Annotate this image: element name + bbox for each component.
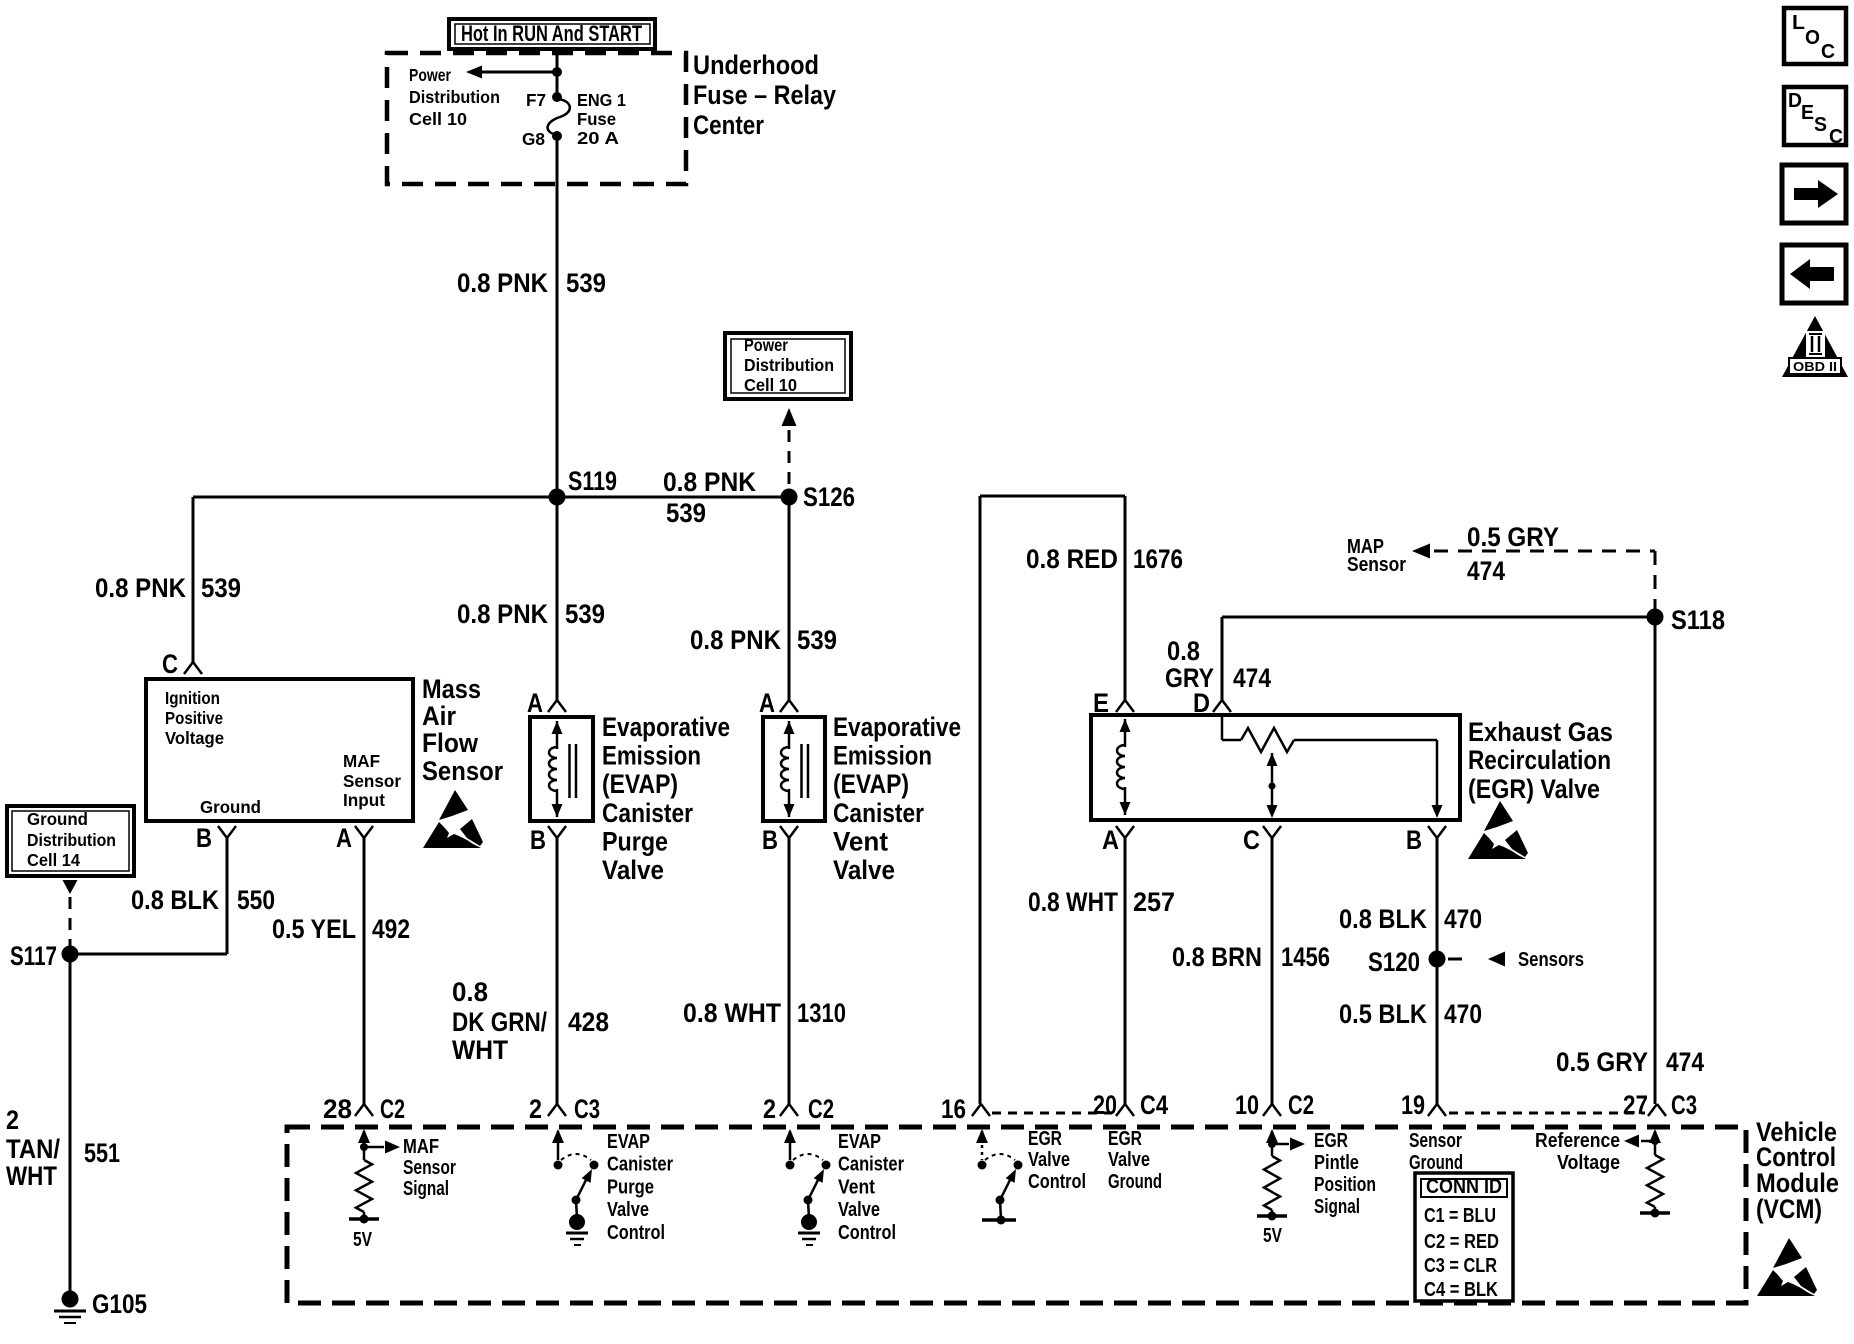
svg-text:C1 = BLU: C1 = BLU [1424,1205,1496,1227]
svg-text:Mass: Mass [422,674,481,704]
svg-text:Evaporative: Evaporative [602,712,730,742]
svg-text:470: 470 [1444,904,1482,934]
pin B of purge valve [530,825,566,855]
svg-text:539: 539 [201,573,241,603]
svg-text:Valve: Valve [1028,1149,1070,1171]
label: Vehicle Control Module (VCM) [1756,1117,1839,1224]
pin C of MAF sensor [162,649,202,679]
dashed connector segment pin16-pin20 [992,1112,1112,1115]
label: 0.8 GRY 474 [1165,636,1271,693]
svg-text:Purge: Purge [607,1176,654,1198]
VCM internal: reference voltage pull-up [1624,1129,1670,1218]
svg-text:(EGR) Valve: (EGR) Valve [1468,774,1600,804]
label: Mass Air Flow Sensor [422,674,503,786]
svg-text:EGR: EGR [1314,1130,1348,1152]
svg-text:Air: Air [422,701,456,731]
VCM internal: MAF sensor signal pull-up to 5V [349,1129,400,1251]
VCM pin 20 C4 [1093,1090,1168,1120]
svg-text:S: S [1814,114,1827,136]
svg-text:Flow: Flow [422,728,479,758]
wire: feed from Hot box to fuse F7 [556,48,559,97]
label: Sensor Ground [1409,1130,1463,1174]
label: 0.8 BRN 1456 [1172,942,1330,972]
svg-text:Emission: Emission [833,741,932,771]
VCM internal: EGR valve control driver switch [976,1129,1023,1225]
icon: LOC [1784,8,1846,64]
svg-text:EVAP: EVAP [838,1131,881,1153]
svg-text:EGR: EGR [1028,1128,1062,1150]
svg-text:Cell 14: Cell 14 [27,850,80,870]
svg-text:2: 2 [529,1094,542,1124]
pin A of purge valve [527,688,566,718]
svg-text:Power: Power [744,335,788,355]
svg-text:Signal: Signal [403,1178,449,1200]
pin A of vent valve [759,688,798,718]
svg-text:B: B [762,825,778,855]
svg-text:EGR: EGR [1108,1128,1142,1150]
svg-text:Sensor: Sensor [1347,554,1406,576]
power distribution cell 10 box (middle) [725,333,851,399]
svg-text:S119: S119 [568,466,617,496]
label: EGR Valve Control [1028,1128,1086,1193]
splice S120 with dashed branch to sensors [1368,947,1584,977]
svg-text:0.8: 0.8 [452,977,488,1007]
VCM pin 28 C2 [323,1094,405,1124]
svg-text:Canister: Canister [607,1154,673,1176]
svg-text:1310: 1310 [797,998,846,1028]
wire: S117 down to G105 [69,954,72,1296]
svg-text:G8: G8 [522,129,545,149]
svg-text:Vent: Vent [838,1176,875,1198]
svg-text:OBD II: OBD II [1793,359,1837,374]
svg-text:27: 27 [1623,1090,1648,1120]
fuse F7/G8 ENG 1 Fuse 20 A [522,90,626,149]
label: 0.8 WHT 1310 [683,998,846,1028]
icon: DESC [1784,87,1846,148]
svg-text:MAF: MAF [403,1136,439,1158]
svg-text:5V: 5V [353,1229,373,1251]
wire: EGR B down through S120 to VCM pin 19 [1436,838,1439,1104]
svg-text:474: 474 [1467,556,1505,586]
svg-text:Recirculation: Recirculation [1468,745,1611,775]
svg-text:MAF: MAF [343,751,380,771]
svg-text:C3: C3 [1671,1090,1697,1120]
svg-text:B: B [196,823,212,853]
svg-text:Sensors: Sensors [1518,949,1584,971]
svg-text:Fuse – Relay: Fuse – Relay [693,80,836,110]
svg-text:Voltage: Voltage [165,728,224,748]
pin A of EGR valve [1102,825,1134,855]
svg-text:10: 10 [1235,1090,1259,1120]
label: 0.5 BLK 470 [1339,999,1482,1029]
svg-text:C: C [1821,41,1835,63]
ESD symbol (EGR) [1468,801,1528,859]
svg-text:Control: Control [607,1222,665,1244]
svg-text:0.5 GRY: 0.5 GRY [1467,522,1559,552]
label: 0.8 BLK 550 [131,885,275,915]
dashed connector segment pin19-pin27 [1449,1112,1645,1115]
label: Exhaust Gas Recirculation (EGR) Valve [1468,717,1613,804]
svg-text:28: 28 [323,1094,352,1124]
svg-text:C2 = RED: C2 = RED [1424,1231,1499,1253]
pin D of EGR valve [1193,688,1231,718]
svg-text:Sensor: Sensor [403,1157,456,1179]
ESD symbol (MAF) [423,790,483,848]
VCM pin 27 C3 [1623,1090,1697,1120]
svg-text:Signal: Signal [1314,1196,1360,1218]
svg-text:Vent: Vent [833,826,888,856]
svg-text:C4: C4 [1140,1090,1168,1120]
arrow to power distribution [466,66,562,79]
svg-text:Canister: Canister [602,798,693,828]
svg-text:0.8 PNK: 0.8 PNK [663,467,756,497]
svg-text:428: 428 [568,1007,609,1037]
label: 0.8 PNK 539 (purge feed) [457,599,605,629]
svg-text:Center: Center [693,110,764,140]
svg-text:C2: C2 [1288,1090,1314,1120]
svg-text:0.8 RED: 0.8 RED [1026,544,1118,574]
svg-text:2: 2 [6,1105,19,1135]
wire: S118 left and down to EGR pin D [1222,617,1655,700]
svg-text:F7: F7 [526,90,546,110]
svg-text:Input: Input [343,790,385,810]
svg-text:Control: Control [838,1222,896,1244]
svg-text:Distribution: Distribution [409,87,500,107]
svg-text:Canister: Canister [838,1154,904,1176]
splice S118 [1647,605,1726,635]
svg-text:A: A [527,688,543,718]
wire: left branch down to MAF pin C [192,497,195,662]
splice S119 [549,466,618,506]
svg-text:S117: S117 [10,941,57,971]
svg-text:TAN/: TAN/ [6,1134,60,1164]
pin A of MAF sensor [336,823,373,853]
label: 0.5 GRY 474 (MAP) [1467,522,1559,586]
svg-text:A: A [336,823,352,853]
label: EVAP Canister Purge Valve Control [607,1131,673,1244]
svg-text:S120: S120 [1368,947,1420,977]
label: Evaporative Emission (EVAP) Canister Vent Valve [833,712,961,885]
label: 0.8 BLK 470 [1339,904,1482,934]
svg-text:Fuse: Fuse [577,109,616,129]
vehicle control module dashed box [287,1127,1746,1303]
svg-text:Valve: Valve [607,1199,649,1221]
svg-text:Hot In RUN And START: Hot In RUN And START [461,21,642,46]
svg-text:DK GRN/: DK GRN/ [452,1007,547,1037]
svg-text:D: D [1788,90,1802,112]
label: 0.8 PNK 539 (vent feed) [690,625,837,655]
svg-text:0.8 WHT: 0.8 WHT [683,998,781,1028]
svg-text:0.5 GRY: 0.5 GRY [1556,1047,1648,1077]
CONN ID table [1415,1173,1513,1301]
wire: vent B down to VCM pin 2 C2 [788,838,791,1104]
dashed wire: S118 to MAP sensor [1412,544,1655,611]
VCM internal: EVAP purge driver switch to ground [552,1129,599,1245]
svg-text:CONN ID: CONN ID [1426,1176,1502,1198]
svg-text:Sensor: Sensor [343,771,401,791]
svg-text:A: A [1102,825,1119,855]
svg-text:Sensor: Sensor [1409,1130,1462,1152]
splice S126 [781,482,856,512]
svg-text:S118: S118 [1671,605,1725,635]
icon: OBD II triangle [1782,316,1848,377]
EVAP canister vent valve [763,717,825,821]
svg-text:Cell 10: Cell 10 [744,375,797,395]
svg-text:Exhaust Gas: Exhaust Gas [1468,717,1613,747]
svg-text:Distribution: Distribution [27,830,116,850]
label: 0.8 PNK 539 (left branch) [95,573,241,603]
icon: arrow left [1782,245,1846,303]
wire: fuse G8 down to splice S119 [556,136,559,497]
svg-text:C3: C3 [574,1094,600,1124]
svg-text:Valve: Valve [1108,1149,1150,1171]
svg-text:16: 16 [941,1094,966,1124]
svg-text:E: E [1801,102,1814,124]
VCM pin 2 C3 [529,1094,600,1124]
svg-text:Underhood: Underhood [693,50,819,80]
pin B of vent valve [762,825,798,855]
label: MAP Sensor [1347,536,1406,576]
icon: arrow right [1782,165,1846,223]
svg-text:Valve: Valve [838,1199,880,1221]
label: EGR Pintle Position Signal [1314,1130,1376,1218]
svg-text:A: A [759,688,775,718]
label: 0.8 DK GRN/WHT 428 [452,977,609,1065]
svg-text:Position: Position [1314,1174,1376,1196]
svg-text:257: 257 [1133,887,1175,917]
svg-text:L: L [1792,12,1805,34]
svg-text:0.8 PNK: 0.8 PNK [95,573,186,603]
label: 2 TAN/WHT 551 [6,1105,120,1191]
svg-text:D: D [1193,688,1210,718]
svg-text:EVAP: EVAP [607,1131,650,1153]
svg-text:539: 539 [797,625,837,655]
svg-text:20 A: 20 A [577,128,619,148]
wire: VCM pin 16 up and over to EGR pin E [980,496,1125,1104]
svg-text:492: 492 [372,914,410,944]
underhood fuse-relay center dashed box [387,53,686,184]
svg-text:0.8: 0.8 [1167,636,1200,666]
svg-text:S126: S126 [803,482,855,512]
svg-text:Positive: Positive [165,708,223,728]
svg-text:Ignition: Ignition [165,688,220,708]
svg-text:1676: 1676 [1133,544,1183,574]
svg-text:Canister: Canister [833,798,924,828]
svg-text:C: C [1243,825,1260,855]
VCM pin 2 C2 [763,1094,834,1124]
label: MAF Sensor Signal [403,1136,456,1200]
power feed box: Hot In RUN And START [449,19,655,49]
svg-text:Valve: Valve [833,855,895,885]
wire: S118 down to VCM pin 27 [1654,617,1657,1104]
svg-text:(EVAP): (EVAP) [833,769,909,799]
svg-text:0.8 PNK: 0.8 PNK [457,599,548,629]
wire: MAF B to splice S117 [70,838,227,954]
svg-text:Control: Control [1028,1171,1086,1193]
svg-text:Evaporative: Evaporative [833,712,961,742]
svg-text:Voltage: Voltage [1557,1152,1620,1174]
svg-text:5V: 5V [1263,1225,1283,1247]
svg-text:ENG 1: ENG 1 [577,90,626,110]
svg-text:474: 474 [1233,663,1271,693]
wire: S126 down to EVAP vent pin A [788,497,791,700]
svg-text:Reference: Reference [1535,1130,1620,1152]
svg-text:Ground: Ground [27,809,88,829]
svg-text:0.8 PNK: 0.8 PNK [690,625,781,655]
ground distribution cell 14 box [7,806,134,876]
wire: EGR A down to VCM pin 20 [1124,838,1127,1104]
label: 0.8 RED 1676 [1026,544,1183,574]
pin B of EGR valve [1406,825,1446,855]
svg-text:0.5 BLK: 0.5 BLK [1339,999,1427,1029]
svg-text:539: 539 [566,268,606,298]
MAF sensor box Ignition Positive Voltage / Ground / MAF Sensor Input [146,679,413,821]
label: Underhood Fuse - Relay Center [693,50,836,140]
wire: S119 down to EVAP purge pin A [556,497,559,700]
svg-text:(VCM): (VCM) [1756,1194,1822,1224]
svg-text:1456: 1456 [1281,942,1330,972]
dashed wire: S126 up to power distribution [782,408,797,490]
svg-text:C: C [1829,126,1843,148]
VCM pin 19 [1401,1090,1446,1120]
label: Evaporative Emission (EVAP) Canister Purge Valve [602,712,730,885]
EVAP canister purge valve [530,717,593,821]
svg-text:550: 550 [237,885,275,915]
pin B of MAF sensor [196,823,236,853]
svg-text:0.5 YEL: 0.5 YEL [272,914,356,944]
svg-text:2: 2 [763,1094,776,1124]
svg-text:Ground: Ground [200,797,261,817]
wire: purge B down to VCM pin 2 C3 [556,838,559,1104]
label: EVAP Canister Vent Valve Control [838,1131,904,1244]
ground G105 [54,1289,147,1323]
svg-text:C: C [162,649,178,679]
svg-text:539: 539 [565,599,605,629]
svg-text:Ground: Ground [1108,1171,1162,1193]
svg-text:WHT: WHT [452,1035,508,1065]
label: EGR Valve Ground [1108,1128,1162,1193]
svg-text:470: 470 [1444,999,1482,1029]
wire: horizontal splice run S119 to S126 [193,496,789,499]
svg-text:(EVAP): (EVAP) [602,769,678,799]
svg-text:Ground: Ground [1409,1152,1463,1174]
svg-text:551: 551 [84,1138,120,1168]
VCM internal: EVAP vent driver switch to ground [784,1129,831,1245]
svg-text:Distribution: Distribution [744,355,834,375]
label: 0.8 PNK 539 (fuse feed) [457,268,606,298]
dashed wire: ground distribution down to S117 [63,880,78,946]
label: 0.5 YEL 492 [272,914,410,944]
label: Reference Voltage [1535,1130,1620,1174]
pin C of EGR valve [1243,825,1281,855]
svg-text:Sensor: Sensor [422,756,503,786]
svg-text:Cell 10: Cell 10 [409,109,467,129]
label: 0.8 WHT 257 [1028,887,1175,917]
svg-text:C3 = CLR: C3 = CLR [1424,1255,1497,1277]
splice S117 [10,941,79,971]
svg-text:C2: C2 [808,1094,834,1124]
svg-text:Power: Power [409,65,451,85]
svg-text:B: B [1406,825,1422,855]
svg-text:0.8 BRN: 0.8 BRN [1172,942,1262,972]
EGR valve box [1091,715,1460,820]
svg-text:O: O [1805,27,1820,49]
VCM pin 10 C2 [1235,1090,1314,1120]
label: 0.5 GRY 474 (pin 27) [1556,1047,1704,1077]
pin E of EGR valve [1093,688,1134,718]
svg-text:474: 474 [1666,1047,1704,1077]
svg-text:C4 = BLK: C4 = BLK [1424,1279,1498,1301]
svg-text:539: 539 [666,498,706,528]
ESD symbol (VCM) [1757,1238,1817,1296]
svg-text:C2: C2 [380,1094,405,1124]
VCM internal: EGR pintle position pull-up to 5V [1257,1129,1305,1247]
svg-text:0.8 BLK: 0.8 BLK [1339,904,1427,934]
svg-text:WHT: WHT [6,1161,57,1191]
svg-text:Emission: Emission [602,741,701,771]
label: Power Distribution Cell 10 (fuse box) [409,65,500,129]
svg-text:19: 19 [1401,1090,1425,1120]
svg-text:Pintle: Pintle [1314,1152,1359,1174]
svg-text:0.8 WHT: 0.8 WHT [1028,887,1118,917]
VCM pin 16 [941,1094,990,1124]
svg-text:Valve: Valve [602,855,664,885]
label: 0.8 PNK 539 (S119-S126) [663,467,756,528]
svg-text:20: 20 [1093,1090,1117,1120]
svg-text:0.8 PNK: 0.8 PNK [457,268,548,298]
svg-text:E: E [1093,688,1109,718]
svg-text:Purge: Purge [602,826,668,856]
svg-text:0.8 BLK: 0.8 BLK [131,885,219,915]
svg-text:B: B [530,825,546,855]
wire: MAF A down to VCM pin 28 [363,838,366,1104]
wire: EGR C down to VCM pin 10 [1271,838,1274,1104]
svg-text:G105: G105 [92,1289,147,1319]
